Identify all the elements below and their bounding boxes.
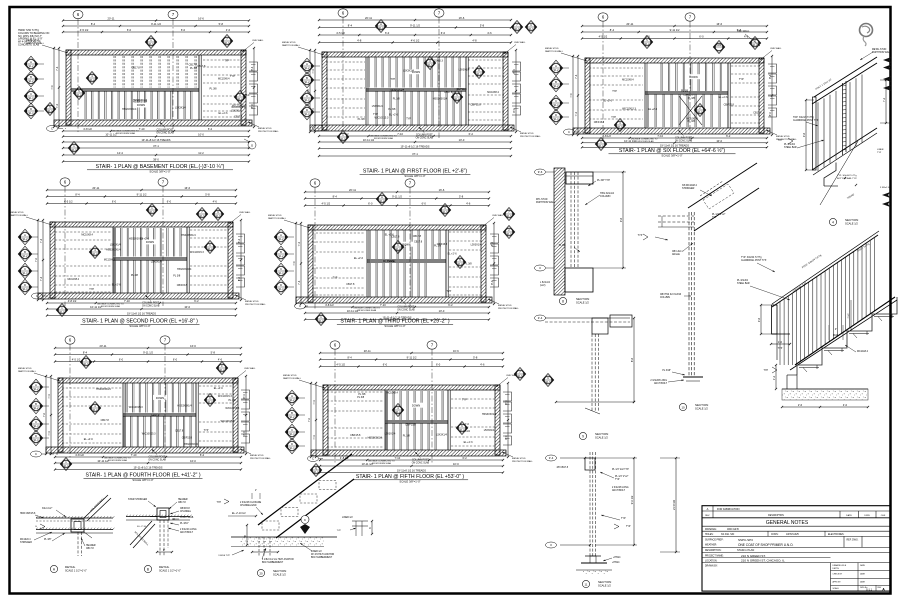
svg-text:CB/F15.8: CB/F15.8 (180, 508, 190, 510)
svg-text:2 3/4x3/8 LONG: 2 3/4x3/8 LONG (612, 487, 629, 489)
plan fifth floor left dimension lines (307, 382, 317, 458)
svg-text:STRINGER: STRINGER (20, 542, 32, 544)
svg-text:BOLT EMBEDMENT: BOLT EMBEDMENT (311, 557, 333, 559)
svg-text:TYP: TYP (638, 234, 643, 237)
plan first floor room hidden lines 2 (468, 60, 504, 120)
plan third floor stair flight treads 2 (369, 263, 426, 297)
plan fifth floor right dimension lines (504, 382, 509, 458)
svg-text:38'-0: 38'-0 (153, 158, 159, 162)
svg-text:PL 3/8: PL 3/8 (559, 245, 566, 247)
plan fifth floor small labels (350, 392, 497, 444)
plan basement floor stair flight treads 2 (114, 56, 196, 88)
plan third floor right dimension lines (490, 222, 495, 305)
plan six floor level oval marker (564, 129, 586, 135)
svg-text:DESCRIPTION:: DESCRIPTION: (705, 550, 722, 552)
plan basement floor callout diamond 5/S1.2 (73, 87, 85, 100)
svg-text:MC10X8.4: MC10X8.4 (218, 77, 230, 80)
misc small notes left of title block (612, 469, 631, 564)
svg-text:TYP: TYP (615, 479, 620, 481)
svg-text:6'-0: 6'-0 (385, 31, 390, 35)
svg-text:CB17.8: CB17.8 (132, 66, 141, 69)
plan fourth floor inner wall (195, 383, 197, 447)
plan six floor left dimension lines (569, 55, 579, 136)
svg-text:B: B (306, 76, 308, 80)
svg-text:7'-2: 7'-2 (882, 97, 886, 102)
section 10 column (689, 212, 694, 377)
plan six floor callout diamond 5/S1.2 (641, 36, 653, 49)
plan fourth floor callout diamond 4/S1.2 (89, 402, 101, 415)
svg-text:S1.4: S1.4 (29, 112, 35, 115)
svg-text:TYP: TYP (778, 348, 783, 350)
svg-text:S1.2: S1.2 (396, 248, 402, 251)
svg-text:6'-2: 6'-2 (208, 127, 213, 131)
metal stud wall note right margin (737, 30, 892, 60)
svg-text:DOWN: DOWN (137, 103, 145, 107)
svg-text:CB/F15.8: CB/F15.8 (683, 93, 694, 96)
svg-text:MC10X8.4: MC10X8.4 (81, 233, 93, 236)
plan basement floor door-swing marks (249, 62, 258, 115)
plan fifth floor room hidden lines 1 (327, 392, 383, 447)
svg-text:OWJ WALL: OWJ WALL (737, 30, 750, 33)
svg-text:CMU WALL: CMU WALL (252, 39, 264, 42)
large stair ground slab (782, 375, 868, 400)
svg-text:3/8 WOODEN SLAB: 3/8 WOODEN SLAB (116, 132, 136, 135)
svg-text:METAL STUD: METAL STUD (10, 211, 24, 214)
svg-text:4'-6: 4'-6 (226, 28, 231, 32)
svg-text:PL 3/4x3/4: PL 3/4x3/4 (737, 280, 749, 282)
svg-text:L5X3X1/4: L5X3X1/4 (385, 433, 396, 436)
svg-text:20'-11: 20'-11 (100, 344, 107, 348)
plan basement floor DOWN label (134, 103, 148, 108)
detail B header dashed (156, 520, 173, 556)
railing section tread dim diagonal (820, 141, 858, 205)
svg-text:L5X3X1/4: L5X3X1/4 (459, 69, 470, 72)
svg-text:PL 3/8: PL 3/8 (357, 396, 365, 399)
svg-text:TYP: TYP (877, 152, 882, 154)
svg-text:C: C (568, 130, 570, 134)
svg-text:PARTITION WALL: PARTITION WALL (18, 370, 37, 373)
svg-text:SCALE 1 1/2"=1'-0": SCALE 1 1/2"=1'-0" (159, 570, 181, 573)
svg-text:S1.2: S1.2 (290, 399, 296, 402)
svg-text:4'-6: 4'-6 (480, 363, 485, 367)
svg-text:4: 4 (832, 220, 834, 224)
svg-text:TYP: TYP (373, 113, 378, 116)
svg-text:PROTECTION WALL: PROTECTION WALL (512, 460, 534, 463)
detail B leaders and texts (128, 498, 197, 534)
svg-text:5'-8: 5'-8 (211, 351, 216, 355)
svg-text:DETAIL: DETAIL (65, 565, 76, 569)
svg-text:S1.2: S1.2 (220, 369, 226, 372)
svg-text:COLUMN POST: COLUMN POST (397, 307, 414, 309)
svg-text:3'-6: 3'-6 (757, 317, 761, 322)
svg-text:W/C10X15.3: W/C10X15.3 (232, 104, 246, 107)
svg-text:S1.2: S1.2 (29, 80, 35, 83)
svg-text:9'-0 1/2: 9'-0 1/2 (630, 495, 634, 504)
svg-text:4'-6: 4'-6 (487, 31, 492, 35)
svg-text:L5X3X1/4: L5X3X1/4 (372, 105, 383, 108)
svg-text:C: C (317, 126, 319, 130)
svg-text:SCALE 3/8"=1'-0": SCALE 3/8"=1'-0" (399, 480, 420, 484)
svg-text:9'-11 1/2: 9'-11 1/2 (137, 193, 147, 197)
section 11 column detail upper box (546, 455, 596, 470)
plan six floor left room divider (644, 63, 646, 128)
large stair notes (737, 243, 871, 373)
plan fourth floor lower callout diamond (60, 458, 72, 471)
svg-text:C: C (24, 267, 26, 271)
svg-text:LINER 1/2: LINER 1/2 (342, 517, 353, 519)
svg-text:SCALE 3/8"=1'-0": SCALE 3/8"=1'-0" (132, 478, 153, 482)
svg-text:3/8 WOODEN SLAB: 3/8 WOODEN SLAB (372, 462, 392, 465)
plan six floor lower callout diamond (595, 138, 607, 151)
plan basement floor level oval marker (47, 126, 67, 132)
long vertical dimension line (660, 457, 680, 553)
base section dashed steps (262, 481, 336, 531)
svg-text:SCALE 1 1/2"=1'-0": SCALE 1 1/2"=1'-0" (65, 570, 87, 573)
svg-text:16'-6: 16'-6 (439, 188, 445, 192)
svg-text:2 3/4x3/8 CLOSURE: 2 3/4x3/8 CLOSURE (240, 502, 262, 504)
section 9 top dashed beam lines (545, 315, 632, 334)
svg-text:10: 10 (681, 405, 685, 409)
svg-text:DATE: DATE (860, 573, 866, 576)
svg-text:A: A (280, 233, 282, 237)
svg-text:10'-0: 10'-0 (198, 133, 204, 137)
plan fifth floor stair flight treads 1 (386, 391, 443, 420)
svg-text:UNOSIDE CONNECTED TO: UNOSIDE CONNECTED TO (368, 461, 395, 463)
svg-text:UNOSIDE CONNECTED TO: UNOSIDE CONNECTED TO (104, 458, 131, 460)
plan first floor mid landing stringer (366, 88, 466, 90)
svg-text:5'-8: 5'-8 (219, 22, 224, 26)
svg-text:1'-0: 1'-0 (778, 340, 783, 344)
svg-text:PL 3/8: PL 3/8 (403, 435, 411, 438)
svg-text:METAL STUD: METAL STUD (268, 214, 282, 217)
svg-text:SCALE 1/2: SCALE 1/2 (273, 573, 286, 577)
plan six floor room hidden lines 2 (731, 66, 760, 123)
plan second floor mid landing stringer (113, 257, 187, 259)
plan fourth floor grid bubble 6 (65, 336, 75, 460)
svg-text:PARTITION WALL: PARTITION WALL (282, 44, 301, 47)
svg-text:L5X3X1/4: L5X3X1/4 (110, 244, 121, 247)
svg-text:MC10X8.4: MC10X8.4 (386, 392, 398, 395)
plan fifth floor annotation notes (283, 374, 534, 465)
svg-text:S1.4: S1.4 (507, 233, 513, 236)
plan six floor callout diamond 2/S1.4 (694, 104, 706, 117)
svg-text:S1.3: S1.3 (149, 43, 155, 46)
svg-text:7'-10: 7'-10 (131, 453, 137, 457)
svg-text:MC10X8.4: MC10X8.4 (104, 258, 116, 261)
svg-text:MC10X8.4: MC10X8.4 (622, 79, 634, 82)
plan fourth floor top dimension lines (54, 344, 242, 363)
svg-text:C: C (30, 92, 32, 96)
svg-text:12'-4: 12'-4 (117, 151, 123, 155)
svg-text:7'-10: 7'-10 (124, 299, 130, 303)
svg-text:S1.2: S1.2 (29, 65, 35, 68)
svg-text:8'-4: 8'-4 (610, 28, 615, 32)
svg-text:S1.3: S1.3 (546, 381, 552, 384)
plan second floor outer walls (38, 222, 239, 299)
svg-text:9'-11 1/2: 9'-11 1/2 (392, 195, 402, 199)
svg-text:+HSS4: +HSS4 (613, 557, 621, 559)
svg-text:8'-6: 8'-6 (630, 357, 634, 362)
svg-text:STAIR- 1 PLAN @ SECOND FLOOR: STAIR- 1 PLAN @ SECOND FLOOR (EL +16'-8"… (82, 319, 198, 325)
plan first floor inner wall (465, 57, 467, 125)
detail A serrated floor lines (36, 516, 114, 533)
svg-text:EL +2'-6: EL +2'-6 (219, 112, 229, 115)
svg-text:6'-2: 6'-2 (194, 299, 199, 303)
svg-text:PL 3/8: PL 3/8 (358, 118, 366, 121)
title block project name location rows (702, 554, 890, 563)
svg-text:TYP: TYP (390, 78, 395, 81)
svg-text:7'-4: 7'-4 (311, 69, 315, 74)
svg-text:CB17.8: CB17.8 (234, 116, 243, 119)
svg-text:CB/F15.8: CB/F15.8 (182, 437, 193, 440)
svg-text:HOLES:: HOLES: (705, 534, 714, 536)
svg-text:W/C10X15.3: W/C10X15.3 (225, 407, 239, 410)
svg-text:3'-4: 3'-4 (538, 316, 543, 320)
svg-text:SECTION: SECTION (595, 432, 608, 436)
svg-text:CB/F15.8: CB/F15.8 (724, 104, 735, 107)
plan second floor callout diamond 9/S1.3 (212, 208, 224, 221)
svg-text:S1.2: S1.2 (554, 69, 560, 72)
svg-text:8'-4: 8'-4 (91, 22, 96, 26)
plan fourth floor room hidden lines 1 (62, 388, 122, 443)
right margin arrow marks lower (880, 187, 892, 207)
svg-text:MC10X8.4: MC10X8.4 (487, 91, 499, 94)
plan fifth floor section diamond C/S1.4 (285, 424, 305, 440)
svg-text:EL +2'-6: EL +2'-6 (385, 234, 395, 237)
svg-text:TYP: TYP (337, 530, 342, 532)
svg-text:TYP: TYP (621, 517, 626, 520)
plan first floor stair flight treads 1 (368, 57, 460, 88)
plan basement floor section diamond C/S1.4 (24, 88, 44, 104)
svg-text:S1.2: S1.2 (460, 429, 466, 432)
svg-text:MC10x8.4: MC10x8.4 (857, 350, 869, 353)
plan fifth floor callout diamond 9/S1.3 (542, 374, 554, 387)
svg-text:PARTITION WALL: PARTITION WALL (283, 377, 302, 380)
svg-text:PARTITION WALL: PARTITION WALL (268, 217, 287, 220)
svg-text:TYP: TYP (89, 288, 94, 291)
svg-text:210 N GREEN ST, CHICAGO, IL: 210 N GREEN ST, CHICAGO, IL (741, 559, 785, 563)
svg-text:CMU WALL: CMU WALL (239, 211, 251, 214)
plan fourth floor title (84, 473, 203, 483)
svg-text:S1.4: S1.4 (305, 113, 311, 116)
large stair post dims (757, 304, 791, 350)
svg-text:D: D (30, 107, 32, 111)
svg-text:16'-6: 16'-6 (453, 349, 459, 353)
svg-text:A: A (306, 62, 308, 66)
svg-text:4'-8 1/2: 4'-8 1/2 (68, 299, 77, 303)
svg-text:CB/F15.8: CB/F15.8 (405, 424, 416, 427)
svg-text:PL 3/8: PL 3/8 (393, 98, 401, 101)
svg-text:CMU WALL: CMU WALL (492, 214, 504, 217)
svg-text:S1.4: S1.4 (290, 447, 296, 450)
plan six floor section diamond C/S1.4 (549, 95, 569, 111)
plan fourth floor callout diamond 6/S1.2 (204, 394, 216, 407)
title block description row (702, 548, 890, 553)
svg-text:4'-5 1/2: 4'-5 1/2 (322, 202, 331, 206)
section 9 label circle (579, 432, 608, 440)
svg-text:D: D (306, 108, 308, 112)
svg-text:3/4 DIA. S/N: 3/4 DIA. S/N (721, 533, 735, 536)
svg-text:PROTECTION WALL: PROTECTION WALL (520, 135, 542, 138)
svg-text:HSS3X3X1/4: HSS3X3X1/4 (368, 437, 383, 440)
plan basement floor lower callout diamond (68, 142, 80, 155)
svg-text:SECTION: SECTION (695, 403, 708, 407)
plan six floor small labels (594, 78, 762, 124)
svg-text:S1.2: S1.2 (458, 263, 464, 266)
svg-text:6'-0: 6'-0 (422, 202, 427, 206)
svg-text:MC10x8.4: MC10x8.4 (20, 539, 31, 541)
svg-text:4'-8 1/2: 4'-8 1/2 (83, 127, 92, 131)
plan fifth floor section diamond D/S1.4 (285, 438, 305, 454)
svg-text:8'-4: 8'-4 (333, 195, 338, 199)
plan first floor title (360, 169, 471, 179)
right margin arrow marks (883, 57, 892, 91)
base section label circle (257, 569, 286, 577)
svg-text:11: 11 (585, 582, 588, 586)
svg-text:TYP: TYP (333, 276, 338, 279)
plan first floor level oval marker (313, 125, 325, 131)
svg-text:TYP: TYP (462, 399, 467, 402)
plan six floor title (609, 147, 736, 158)
svg-text:CHK: CHK (881, 515, 886, 517)
svg-text:PL 1/4" 2"x2": PL 1/4" 2"x2" (615, 476, 629, 478)
railing notes top (778, 79, 858, 180)
svg-text:DATE: DATE (846, 514, 852, 517)
right margin vertical dim (877, 79, 891, 154)
svg-text:SCALE 1/2: SCALE 1/2 (576, 301, 589, 305)
svg-text:LINER: LINER (877, 149, 884, 151)
svg-text:A: A (555, 64, 557, 68)
plan fifth floor callout diamond 4/S1.2 (392, 404, 404, 417)
svg-text:6'-0: 6'-0 (368, 202, 373, 206)
plan first floor callout diamond 9/S1.3 (525, 21, 537, 34)
plan fourth floor grid bubble 7 (160, 336, 170, 460)
svg-text:SCALE 1/2: SCALE 1/2 (695, 407, 708, 411)
svg-text:STAIR- 1 PLAN @ BASEMENT FLO: STAIR- 1 PLAN @ BASEMENT FLOOR (EL.(-)3'… (96, 164, 225, 170)
svg-text:S1.3: S1.3 (216, 215, 222, 218)
svg-text:S1.3: S1.3 (518, 375, 524, 378)
svg-text:ANCH BOLT: ANCH BOLT (654, 382, 668, 385)
plan fourth floor stair flight treads 2 (124, 416, 191, 447)
plan six floor callout diamond 3/S1.4 (614, 119, 626, 132)
plan basement floor callout diamond 7/S1.3 (221, 35, 233, 48)
svg-text:TYP: TYP (204, 429, 209, 432)
plan six floor annotation notes (545, 47, 798, 143)
svg-text:37'-1: 37'-1 (153, 144, 159, 148)
section 8 level ovals (535, 169, 555, 271)
plan fifth floor section diamond A/S1.2 (285, 390, 305, 406)
svg-text:UNOSIDE CONNECTED TO: UNOSIDE CONNECTED TO (353, 308, 380, 310)
svg-text:7'-10: 7'-10 (394, 456, 400, 460)
base section ground line and slab (231, 537, 337, 547)
svg-text:10'-0: 10'-0 (459, 138, 465, 142)
svg-text:S1.2: S1.2 (93, 253, 99, 256)
plan basement floor small labels (122, 60, 250, 119)
svg-text:K: K (304, 518, 306, 522)
svg-text:HSS3X3X1/4: HSS3X3X1/4 (96, 388, 111, 391)
svg-text:5'-8: 5'-8 (473, 356, 478, 360)
svg-text:S1.3: S1.3 (200, 215, 206, 218)
svg-text:S1.3: S1.3 (428, 64, 434, 67)
svg-text:METAL STUD: METAL STUD (520, 132, 534, 135)
svg-text:S1.2: S1.2 (77, 94, 83, 97)
svg-text:L 5x3x1/4: L 5x3x1/4 (540, 282, 551, 284)
plan third floor section diamond D/S1.4 (274, 279, 294, 295)
svg-text:10'-0: 10'-0 (439, 309, 445, 313)
plan third floor room hidden lines 1 (312, 233, 365, 295)
svg-text:W/C10X15.3: W/C10X15.3 (218, 395, 232, 398)
svg-text:TYP: TYP (217, 502, 222, 504)
plan basement floor bottom dimension lines (62, 127, 250, 163)
plan third floor lower callout diamond (315, 313, 327, 326)
svg-text:EL +2'-6: EL +2'-6 (389, 114, 399, 117)
svg-text:SCALE 3/8"=1'-0": SCALE 3/8"=1'-0" (661, 154, 682, 158)
top-left general note text block (18, 29, 49, 47)
plan fifth floor bottom dimension lines (319, 456, 504, 474)
svg-text:PROTECTION WALL: PROTECTION WALL (245, 303, 267, 306)
svg-text:STAIR-1 PLAN: STAIR-1 PLAN (737, 548, 754, 552)
svg-text:B: B (24, 250, 26, 254)
svg-text:4'-5 1/2: 4'-5 1/2 (64, 200, 73, 204)
svg-text:PL 3/8: PL 3/8 (688, 97, 696, 100)
plan six floor outer walls (573, 58, 770, 134)
svg-text:7'-4: 7'-4 (55, 66, 59, 71)
svg-text:TYP: TYP (611, 116, 616, 119)
svg-text:DATE: DATE (860, 580, 866, 583)
svg-text:EL +2'-6: EL +2'-6 (719, 96, 729, 99)
plan first floor door-swing marks (512, 62, 521, 115)
svg-text:WEATHER:: WEATHER: (705, 544, 717, 547)
svg-text:A: A (35, 383, 37, 387)
svg-text:ANGLE: ANGLE (672, 253, 680, 256)
svg-text:SSPC-SP3: SSPC-SP3 (738, 538, 753, 542)
svg-text:1 1/8x3 1/2 LG HILTI ANCHOR: 1 1/8x3 1/2 LG HILTI ANCHOR (262, 558, 294, 561)
svg-text:ON CONC SLAB: ON CONC SLAB (156, 131, 174, 134)
svg-text:16'-6: 16'-6 (184, 186, 190, 190)
plan six floor bottom dimension lines (581, 134, 768, 148)
svg-text:6'-0: 6'-0 (181, 28, 186, 32)
section 11 leaders (557, 467, 629, 561)
svg-text:CB17.8: CB17.8 (151, 414, 160, 417)
plan second floor grid bubble 7 (158, 178, 168, 306)
svg-text:SCALE 1/2: SCALE 1/2 (595, 436, 608, 440)
svg-text:3/8 WOODEN SLAB: 3/8 WOODEN SLAB (374, 137, 394, 140)
title block general notes row (702, 520, 890, 526)
svg-text:DOWN: DOWN (412, 404, 420, 408)
svg-text:C8F: C8F (717, 43, 722, 47)
svg-text:HSS3X3X1/4: HSS3X3X1/4 (390, 88, 405, 91)
plan second floor section diamond D/S1.4 (18, 279, 38, 295)
svg-text:7 1/2: 7 1/2 (848, 313, 850, 319)
svg-text:11'-2: 11'-2 (198, 151, 204, 155)
svg-text:PL 3/8: PL 3/8 (358, 393, 366, 396)
svg-text:S1.2: S1.2 (305, 67, 311, 70)
svg-text:STAIR- 1 PLAN @ FIRST FLOOR: STAIR- 1 PLAN @ FIRST FLOOR (EL +2'-6") (363, 169, 467, 175)
svg-text:CB/ HSS 3x3 3x3/16: CB/ HSS 3x3 3x3/16 (660, 294, 682, 296)
railing section label circle (829, 218, 858, 226)
svg-text:D: D (24, 283, 26, 287)
svg-text:DOWN: DOWN (156, 396, 164, 400)
section 8 leaders and notes (536, 179, 615, 287)
svg-text:STEEL BAR: STEEL BAR (737, 282, 750, 285)
plan fourth floor stair flight treads 1 (126, 383, 193, 413)
svg-text:W/C10X15.3: W/C10X15.3 (190, 251, 204, 254)
svg-text:9": 9" (163, 548, 165, 552)
plan third floor top dimension lines (304, 188, 490, 207)
plan six floor stair flight treads 1 (661, 63, 722, 91)
svg-text:EL +2'-6: EL +2'-6 (448, 253, 458, 256)
plan basement floor callout diamond 5/S1.4 (44, 103, 56, 116)
